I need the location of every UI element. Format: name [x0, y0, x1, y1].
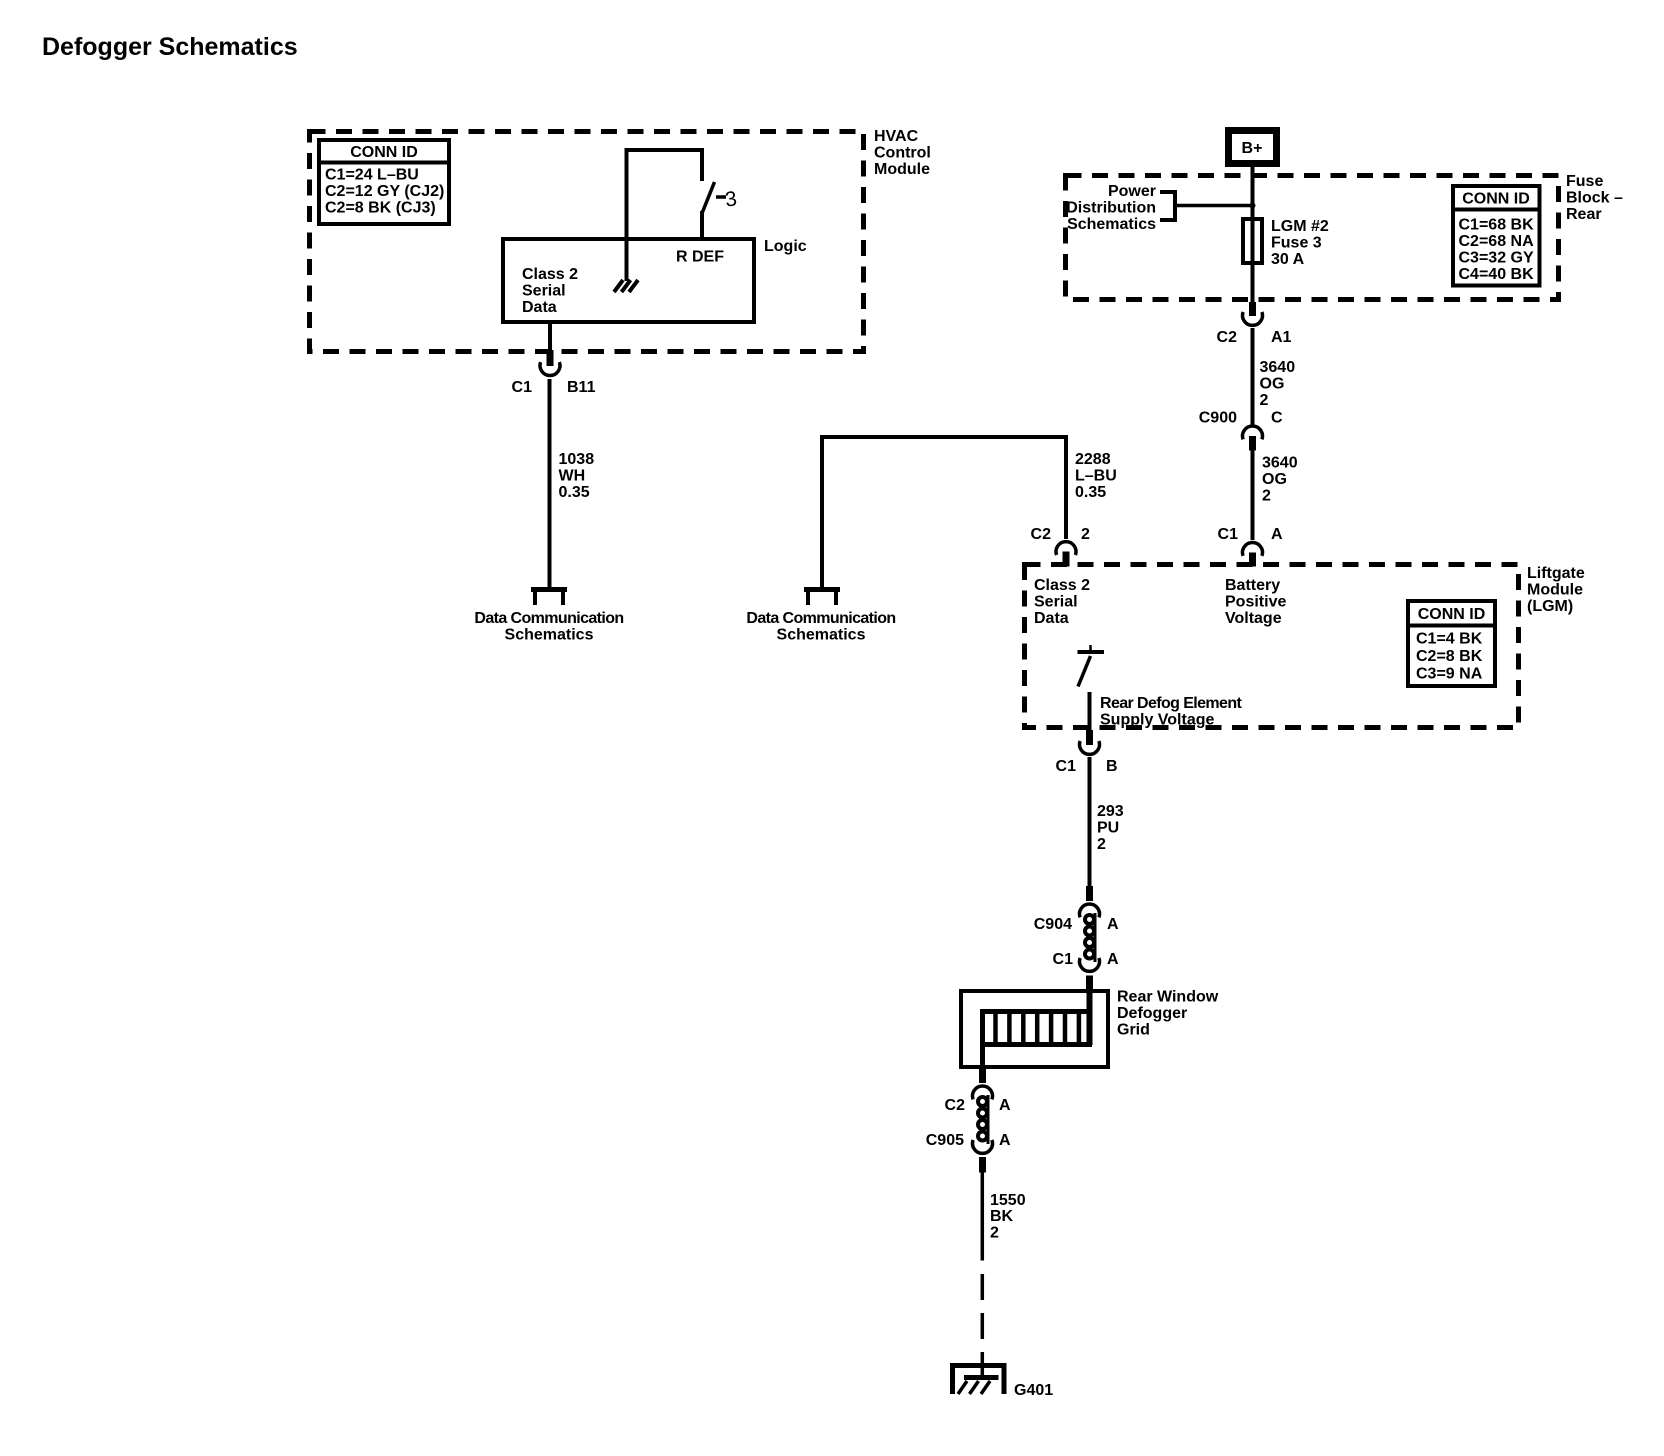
svg-text:1550: 1550: [990, 1192, 1026, 1209]
svg-text:R DEF: R DEF: [676, 249, 724, 266]
svg-text:Fuse 3: Fuse 3: [1271, 235, 1322, 252]
svg-text:A: A: [1271, 526, 1283, 543]
svg-text:Data: Data: [1034, 610, 1069, 627]
svg-text:C3=32 GY: C3=32 GY: [1459, 250, 1534, 267]
svg-text:Serial: Serial: [1034, 594, 1078, 611]
svg-text:Schematics: Schematics: [777, 627, 866, 644]
coiled jumper harness (C2 to C905): [978, 1095, 988, 1144]
svg-text:C: C: [1271, 410, 1283, 427]
svg-text:Liftgate: Liftgate: [1527, 565, 1585, 582]
svg-text:CONN ID: CONN ID: [1418, 606, 1486, 623]
ground G401: [950, 1363, 1053, 1399]
svg-text:Positive: Positive: [1225, 594, 1286, 611]
LGM CONN ID table: [1406, 601, 1497, 686]
logic box U1: [503, 238, 807, 322]
svg-text:G401: G401: [1014, 1382, 1053, 1399]
svg-text:OG: OG: [1262, 471, 1287, 488]
coiled jumper harness (C904 to C1): [1085, 913, 1095, 962]
defogger grid element: [980, 989, 1092, 1069]
wire from logic box to C1: [548, 324, 552, 351]
connector C905 pin A: [926, 1132, 1011, 1173]
wire 1550 BK 2: [982, 1173, 1025, 1261]
dashed wire to ground: [981, 1274, 985, 1378]
svg-text:LGM #2: LGM #2: [1271, 218, 1329, 235]
svg-text:BK: BK: [990, 1208, 1014, 1225]
connector C1 pin A (grid): [1053, 951, 1119, 991]
svg-text:Data: Data: [522, 299, 557, 316]
wire 3640 OG 2 (lower): [1253, 450, 1298, 540]
svg-text:A: A: [1107, 916, 1119, 933]
svg-text:C900: C900: [1199, 410, 1237, 427]
connector C1 pin B: [1056, 730, 1118, 775]
svg-text:C1: C1: [512, 379, 533, 396]
svg-text:C1: C1: [1218, 526, 1239, 543]
svg-text:CONN ID: CONN ID: [350, 144, 418, 161]
svg-text:C2=8 BK (CJ3): C2=8 BK (CJ3): [325, 200, 436, 217]
svg-text:C2: C2: [1217, 329, 1238, 346]
Fuse Block - Rear dashed box: [1066, 173, 1624, 300]
wire loop to R DEF switch: [627, 150, 703, 281]
svg-text:B: B: [1106, 758, 1118, 775]
svg-text:Class 2: Class 2: [1034, 577, 1090, 594]
connector C2 pin A (grid out): [945, 1069, 1011, 1114]
svg-text:2: 2: [1081, 526, 1090, 543]
svg-text:293: 293: [1097, 803, 1124, 820]
svg-text:Defogger: Defogger: [1117, 1005, 1187, 1022]
off-page terminal (middle Data Communication): [746, 589, 895, 644]
svg-text:0.35: 0.35: [559, 484, 590, 501]
connector C1 pin B11: [512, 350, 596, 396]
svg-text:Rear: Rear: [1566, 206, 1602, 223]
svg-text:Data Communication: Data Communication: [746, 610, 895, 627]
svg-text:A: A: [999, 1097, 1011, 1114]
svg-text:C1: C1: [1053, 951, 1074, 968]
LGM pin function labels: [1034, 577, 1090, 627]
svg-text:30 A: 30 A: [1271, 251, 1305, 268]
HVAC CONN ID table: [317, 140, 451, 224]
fuse LGM #2 Fuse 3 30 A: [1243, 217, 1329, 302]
svg-text:(LGM): (LGM): [1527, 598, 1573, 615]
svg-text:C2=68 NA: C2=68 NA: [1459, 233, 1535, 250]
svg-text:Defogger Schematics: Defogger Schematics: [42, 33, 298, 61]
svg-text:Module: Module: [874, 161, 930, 178]
svg-text:C1=4 BK: C1=4 BK: [1416, 631, 1483, 648]
off-page terminal (left Data Communication): [474, 589, 623, 644]
svg-text:C904: C904: [1034, 916, 1072, 933]
svg-text:Control: Control: [874, 145, 931, 162]
node junction dot: [1250, 203, 1256, 209]
Rear Window Defogger Grid box: [961, 989, 1219, 1068]
svg-text:C905: C905: [926, 1132, 964, 1149]
Liftgate Module (LGM) dashed box: [1025, 565, 1585, 728]
svg-text:C1=24 L–BU: C1=24 L–BU: [325, 167, 419, 184]
svg-text:2: 2: [1260, 392, 1269, 409]
svg-text:C2=8 BK: C2=8 BK: [1416, 648, 1483, 665]
svg-text:WH: WH: [559, 468, 586, 485]
connector C2 pin 2 (LGM class 2 serial): [1031, 526, 1090, 567]
svg-text:C1: C1: [1056, 758, 1077, 775]
svg-text:3640: 3640: [1262, 455, 1298, 472]
svg-text:Serial: Serial: [522, 283, 566, 300]
HVAC Control Module dashed box: [310, 128, 931, 352]
wire 1038 WH 0.35: [550, 379, 595, 588]
Power Distribution Schematics bracket: [1066, 183, 1177, 233]
wire 293 PU 2: [1090, 757, 1124, 887]
svg-text:C2: C2: [1031, 526, 1052, 543]
svg-text:Fuse: Fuse: [1566, 173, 1603, 190]
svg-text:PU: PU: [1097, 820, 1119, 837]
svg-text:HVAC: HVAC: [874, 128, 919, 145]
svg-text:Rear Defog Element: Rear Defog Element: [1100, 695, 1243, 712]
svg-text:Schematics: Schematics: [505, 627, 594, 644]
svg-text:Schematics: Schematics: [1067, 216, 1156, 233]
connector C900 pin C: [1199, 410, 1283, 451]
wire 3640 OG 2 (upper): [1253, 328, 1296, 425]
svg-text:Power: Power: [1108, 183, 1156, 200]
wire branch to power distribution: [1177, 204, 1254, 208]
svg-text:C3=9 NA: C3=9 NA: [1416, 666, 1483, 683]
svg-text:CONN ID: CONN ID: [1462, 191, 1530, 208]
svg-text:Distribution: Distribution: [1066, 200, 1156, 217]
svg-text:Data Communication: Data Communication: [474, 610, 623, 627]
svg-text:A1: A1: [1271, 329, 1292, 346]
svg-text:Module: Module: [1527, 582, 1583, 599]
svg-text:0.35: 0.35: [1075, 484, 1106, 501]
svg-text:2: 2: [1097, 836, 1106, 853]
svg-text:Logic: Logic: [764, 238, 807, 255]
svg-text:C2=12 GY (CJ2): C2=12 GY (CJ2): [325, 183, 444, 200]
svg-text:A: A: [1107, 951, 1119, 968]
svg-text:C1=68 BK: C1=68 BK: [1459, 217, 1535, 234]
connector C904 pin A: [1034, 886, 1119, 933]
switch SW2 (rear defog driver): [1078, 645, 1243, 731]
B+ battery terminal: [1229, 131, 1277, 164]
connector C2 pin A1: [1217, 302, 1292, 346]
svg-text:C4=40 BK: C4=40 BK: [1459, 266, 1535, 283]
svg-text:Class 2: Class 2: [522, 266, 578, 283]
ground (HVAC internal): [614, 280, 638, 292]
svg-text:Rear Window: Rear Window: [1117, 989, 1219, 1006]
svg-text:2: 2: [990, 1225, 999, 1242]
svg-text:Battery: Battery: [1225, 577, 1280, 594]
svg-text:Block –: Block –: [1566, 190, 1623, 207]
wire 2288 branch (node to LGM Class 2): [822, 437, 1117, 587]
svg-text:Supply Voltage: Supply Voltage: [1100, 712, 1214, 729]
svg-text:3640: 3640: [1260, 359, 1296, 376]
svg-text:Voltage: Voltage: [1225, 610, 1282, 627]
svg-text:B11: B11: [567, 379, 596, 396]
switch SW1 blade: [702, 182, 738, 239]
svg-text:Grid: Grid: [1117, 1022, 1150, 1039]
connector C1 pin A (LGM battery feed): [1218, 526, 1283, 567]
svg-text:OG: OG: [1260, 376, 1285, 393]
svg-text:2: 2: [1262, 488, 1271, 505]
svg-text:1038: 1038: [559, 451, 595, 468]
svg-text:A: A: [999, 1132, 1011, 1149]
Fuse Block CONN ID table: [1451, 186, 1542, 286]
svg-text:L–BU: L–BU: [1075, 468, 1117, 485]
svg-text:C2: C2: [945, 1097, 966, 1114]
svg-text:2288: 2288: [1075, 451, 1111, 468]
svg-text:B+: B+: [1242, 140, 1263, 157]
wire B+ to fuse: [1251, 166, 1255, 219]
